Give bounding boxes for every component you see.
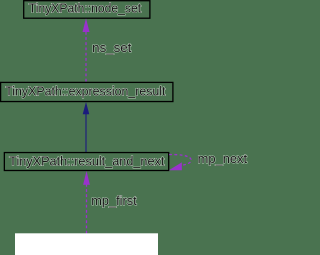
svg-text:TinyXPath::node_set: TinyXPath::node_set bbox=[29, 2, 142, 16]
node box TinyXPath::node_set bbox=[24, 1, 150, 19]
node box TinyXPath::expression_result bbox=[1, 82, 173, 101]
node box TinyXPath::result_and_next bbox=[4, 153, 168, 171]
edge mp_first (dashed purple) bbox=[83, 171, 137, 234]
svg-text:mp_next: mp_next bbox=[198, 152, 248, 166]
svg-text:TinyXPath::expression_result: TinyXPath::expression_result bbox=[5, 85, 166, 99]
current node (white, clipped at bottom) bbox=[15, 233, 158, 255]
edge ns_set (dashed purple) bbox=[83, 18, 132, 81]
edge mp_next self loop (dashed purple) bbox=[169, 152, 248, 170]
svg-text:ns_set: ns_set bbox=[92, 41, 132, 55]
svg-text:mp_first: mp_first bbox=[91, 194, 137, 208]
edge inheritance (solid midnightblue) bbox=[83, 102, 90, 152]
svg-text:TinyXPath::result_and_next: TinyXPath::result_and_next bbox=[9, 154, 165, 168]
